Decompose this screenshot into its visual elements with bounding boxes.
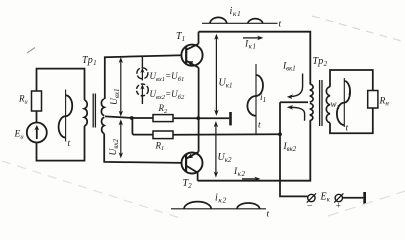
- arrow Iк1: [243, 37, 259, 39]
- waveform iк1 hump 1: [210, 17, 227, 23]
- transformer Tp1 secondary winding: [101, 99, 104, 116]
- svg-text:iк2: iк2: [215, 193, 227, 205]
- wire Rи to Eи: [36, 111, 38, 123]
- waveform load current sine: [337, 81, 350, 125]
- svg-text:Rи: Rи: [18, 94, 28, 106]
- transistor T1: [181, 45, 202, 66]
- bottom rail: [198, 120, 311, 180]
- wire R2 to common bar: [173, 117, 229, 119]
- battery bar: [363, 192, 366, 204]
- waveform iк2: [171, 208, 266, 210]
- scan artifact diagonal top right: [312, 16, 405, 42]
- arrow Uвх1: [120, 60, 122, 114]
- wire T1 collector to top rail: [198, 32, 200, 44]
- svg-text:Uвх2=Uб2: Uвх2=Uб2: [150, 89, 185, 101]
- transistor T2: [182, 153, 203, 174]
- arrow Uк2: [215, 124, 217, 175]
- svg-text:i: i: [348, 88, 351, 98]
- waveform iк2 hump 2: [237, 203, 260, 209]
- wire left loop top: [37, 69, 85, 100]
- junction dot emitters: [196, 116, 200, 120]
- arrow Iвк1: [291, 74, 303, 97]
- arrow Iк2: [242, 178, 256, 180]
- junction dot: [130, 116, 134, 120]
- terminal Ek minus: [308, 194, 315, 201]
- wire to generator chain: [141, 56, 143, 68]
- svg-text:–: –: [307, 200, 313, 210]
- junction dot Ek: [278, 132, 282, 136]
- scan artifact slash left: [27, 48, 35, 54]
- svg-text:Iк2: Iк2: [233, 167, 245, 178]
- resistor Rн: [368, 91, 378, 109]
- wire secondary loop right/bottom: [330, 108, 373, 133]
- waveform input sine: [65, 90, 67, 142]
- top rail: [199, 32, 311, 84]
- waveform iк2 hump 1: [184, 202, 211, 209]
- svg-text:t: t: [346, 124, 349, 134]
- source Eи: [27, 123, 47, 143]
- svg-text:Тр1: Тр1: [82, 55, 97, 67]
- resistor R1: [153, 131, 173, 139]
- svg-text:t: t: [68, 139, 71, 149]
- svg-text:t: t: [279, 20, 282, 30]
- scan artifact diagonal bottom right: [328, 191, 405, 216]
- scan artifact diagonal bottom left: [2, 161, 180, 218]
- arrow Uк1: [215, 37, 217, 114]
- waveform iк1: [202, 22, 278, 24]
- secondary loop of Tp2: [330, 70, 373, 91]
- wire R1 to Ek line: [173, 133, 280, 135]
- arrow Uвх2: [120, 122, 122, 156]
- waveform i load: [343, 78, 345, 127]
- resistor Rи: [32, 91, 42, 111]
- svg-text:R2: R2: [158, 103, 169, 115]
- resistor R2: [153, 115, 173, 122]
- waveform i1 sine: [247, 75, 263, 116]
- wire Tp2 center tap: [280, 101, 308, 103]
- transformer Tp1 core: [93, 94, 95, 128]
- svg-text:T2: T2: [183, 178, 193, 190]
- svg-text:Iк1: Iк1: [244, 40, 256, 51]
- common bar terminator: [229, 112, 232, 125]
- svg-text:Uвх2: Uвх2: [109, 138, 120, 155]
- svg-text:iк1: iк1: [230, 6, 242, 18]
- source Uвх1 equivalent generator: [137, 68, 148, 79]
- transformer Tp2 primary winding: [310, 84, 313, 102]
- arrow Iвк2: [291, 107, 305, 121]
- transformer Tp2 core: [320, 80, 322, 126]
- svg-text:Rн: Rн: [379, 97, 390, 108]
- svg-text:t: t: [258, 121, 261, 131]
- wire junction down to R1: [132, 118, 153, 135]
- svg-text:T1: T1: [176, 31, 185, 43]
- source Uвх2 equivalent generator: [137, 84, 149, 96]
- waveform i1: [255, 64, 257, 134]
- waveform iк1 hump 2: [248, 19, 263, 24]
- svg-text:Uк1: Uк1: [219, 78, 233, 90]
- svg-text:Uк2: Uк2: [218, 152, 233, 164]
- wire center tap to R2: [132, 117, 153, 119]
- terminal Ek plus: [335, 194, 342, 201]
- svg-text:R1: R1: [155, 140, 165, 152]
- transformer Tp1 primary winding: [84, 100, 87, 126]
- svg-text:t: t: [267, 210, 270, 220]
- svg-text:Тр2: Тр2: [313, 56, 328, 68]
- wire Tp1 center tap: [105, 116, 132, 118]
- svg-text:Iвк1: Iвк1: [282, 62, 296, 73]
- svg-text:i1: i1: [260, 93, 266, 104]
- svg-text:Iвк2: Iвк2: [283, 142, 297, 153]
- svg-text:Uвх1=Uб1: Uвх1=Uб1: [150, 71, 185, 83]
- wire Ek to battery bar: [343, 197, 364, 199]
- svg-text:+: +: [335, 201, 341, 211]
- svg-text:Uвх1: Uвх1: [110, 88, 121, 105]
- wire emitters vertical: [198, 68, 200, 152]
- transformer Tp2 secondary winding: [326, 87, 330, 123]
- wire Tp1 secondary bottom to T2 base: [104, 134, 182, 163]
- wire Tp1 secondary top to T1 base: [105, 55, 182, 99]
- svg-text:Eи: Eи: [14, 130, 25, 141]
- wire generator tail: [141, 96, 143, 104]
- wire left loop bottom: [37, 126, 85, 161]
- wire center tap down to Ek: [280, 102, 308, 196]
- svg-text:Eк: Eк: [320, 192, 331, 204]
